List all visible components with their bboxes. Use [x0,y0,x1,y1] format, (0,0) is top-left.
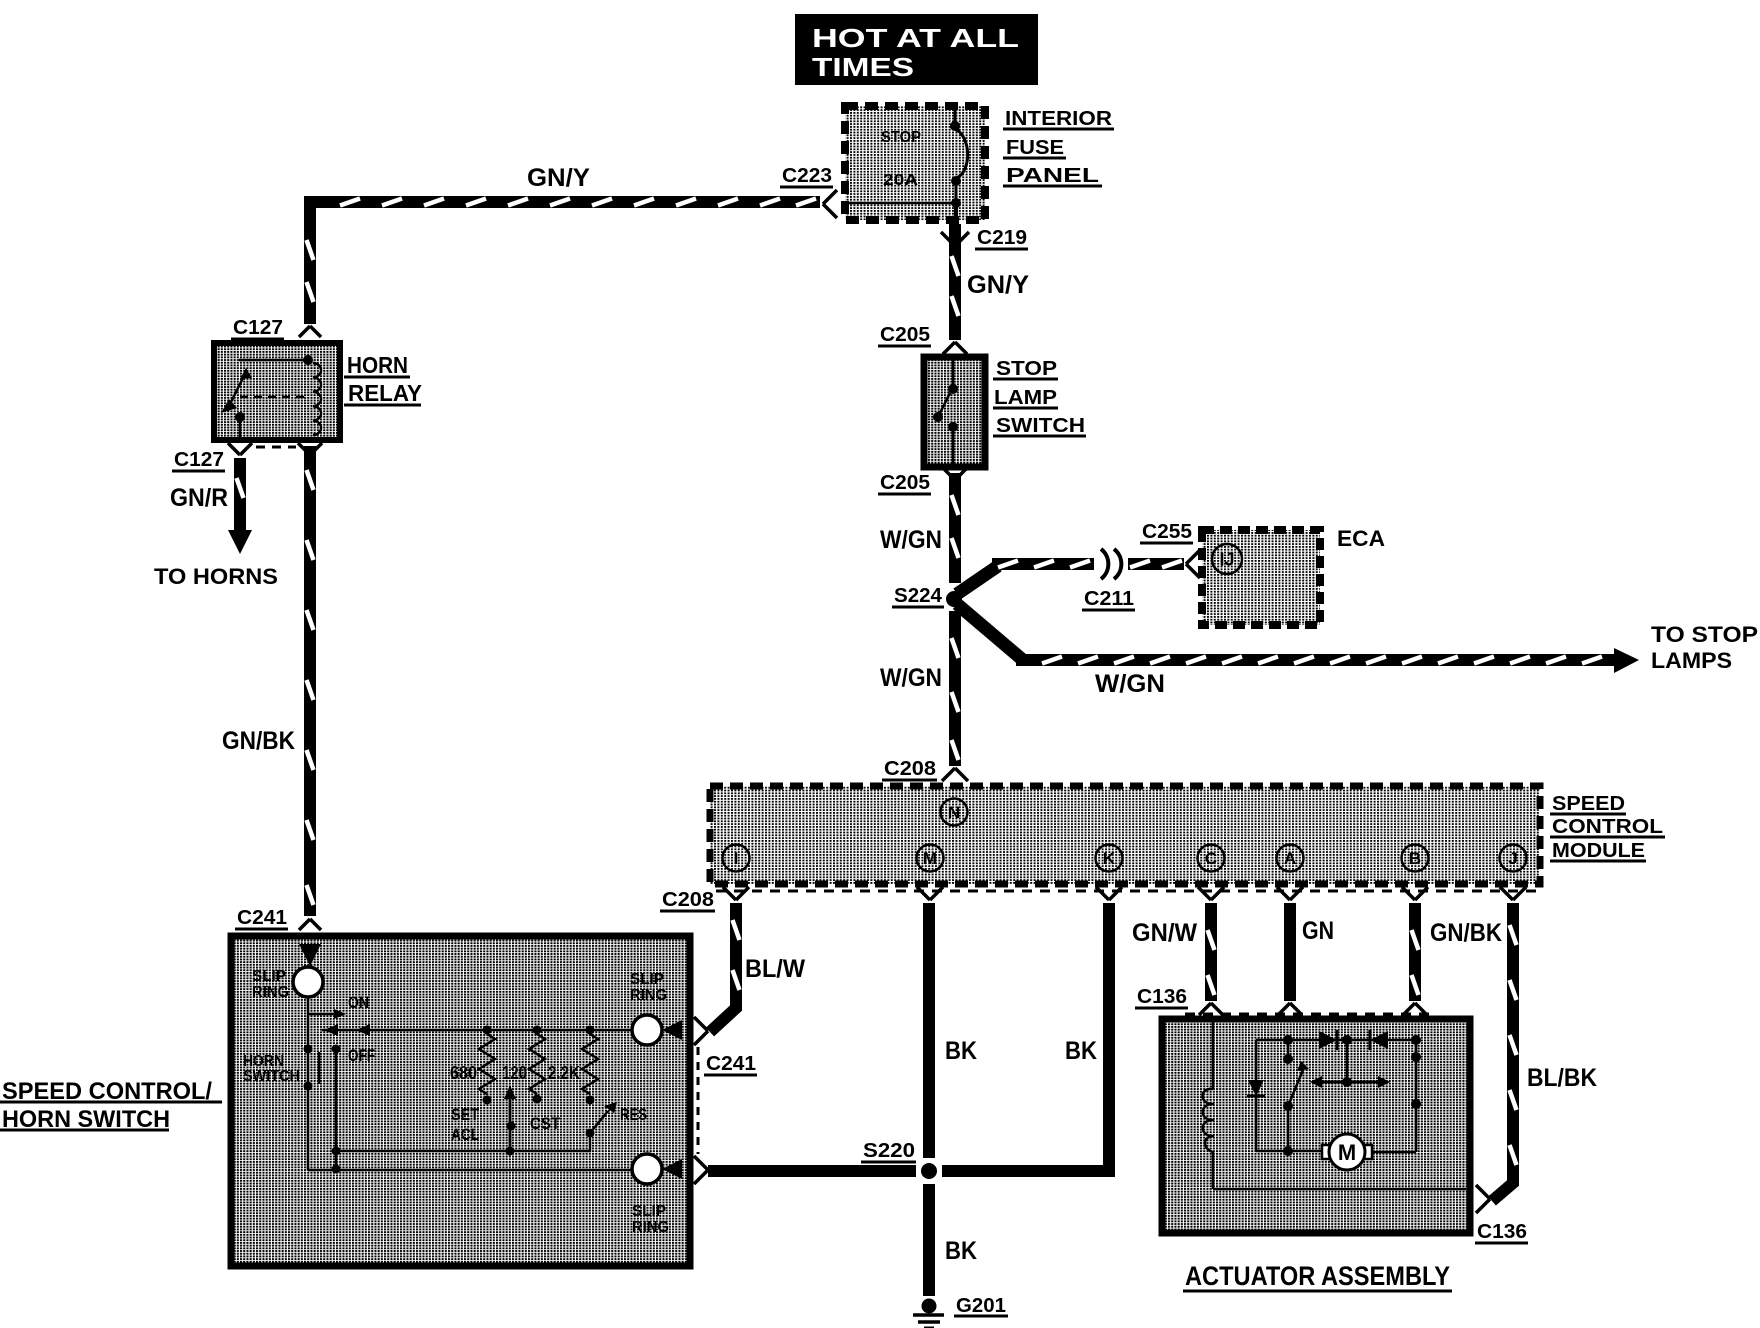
svg-text:GN/Y: GN/Y [527,164,590,192]
svg-text:LAMPS: LAMPS [1651,648,1732,673]
actuator top rail with two diodes [1256,1030,1416,1088]
svg-text:C136: C136 [1137,986,1187,1008]
module pin I [723,845,750,872]
svg-text:SWITCH: SWITCH [243,1068,300,1085]
label ACTUATOR ASSEMBLY [1183,1261,1452,1291]
connector C136 (top) + mating dashed line [1135,986,1430,1015]
wire GN/W (pin C to C136) [1208,903,1215,1001]
svg-text:RING: RING [632,1219,669,1236]
wire BK (pin K to S220) [942,903,1109,1171]
svg-text:J: J [1508,849,1517,868]
svg-text:PANEL: PANEL [1006,165,1099,187]
ECA box [1202,530,1320,625]
connector C219 [941,227,1028,249]
actuator left switch [1283,1040,1309,1156]
label CST [530,1114,561,1133]
entry arrow into slip ring [299,944,321,966]
svg-text:B: B [1409,849,1421,868]
svg-text:BL/W: BL/W [745,955,805,983]
module pin K [1096,845,1123,872]
fuse STOP 20A inside fuse panel [849,107,968,219]
svg-text:S224: S224 [894,585,943,607]
svg-text:GN/BK: GN/BK [1430,919,1502,947]
actuator motor M [1256,1134,1416,1170]
speed control / horn switch box [231,936,690,1266]
wire W/GN (C205 to S224 to C208) [952,473,959,766]
wire W/GN branch to ECA (C211) [957,561,1184,595]
label W/GN (below S224) [880,664,942,692]
svg-text:C205: C205 [880,472,930,494]
connector C223 [780,165,837,218]
resistor 680 [450,1034,495,1105]
slip ring (bottom right) [632,1154,682,1236]
svg-text:C241: C241 [237,907,287,929]
resistor 2.2K [548,1034,598,1105]
module pin M [917,845,944,872]
svg-text:W/GN: W/GN [880,664,942,692]
svg-text:S220: S220 [863,1140,915,1162]
label C208 (left of pin I) [660,889,715,911]
label GN/Y (top wire) [527,164,590,192]
svg-text:C241: C241 [706,1053,756,1075]
svg-text:BK: BK [1065,1037,1097,1065]
module pin B [1402,845,1429,872]
svg-text:RELAY: RELAY [348,380,422,406]
connector C241 (top) [235,907,321,930]
svg-text:OFF: OFF [348,1046,375,1065]
svg-text:SWITCH: SWITCH [996,415,1085,437]
label ON with arrow [308,993,369,1019]
horn relay box [214,343,340,440]
connector C255 [1140,521,1200,578]
module pin N [941,799,968,826]
connector C241 (right, to horn switch) [694,1017,757,1184]
wire GN/BK (pin B to C136) [1412,903,1419,1001]
label BK (left) [945,1037,977,1065]
svg-text:C211: C211 [1084,588,1134,610]
label C208 (above module) [882,758,968,781]
slip ring (top left) [252,967,323,1001]
label OFF + off line [332,1045,376,1174]
svg-text:HOT AT ALL: HOT AT ALL [812,23,1019,53]
connector C205 (top) [878,324,967,354]
svg-text:680: 680 [450,1063,477,1083]
label BK (right) [1065,1037,1097,1065]
label SPEED CONTROL MODULE [1550,793,1665,862]
label INTERIOR FUSE PANEL [1003,108,1114,187]
module lower mating dashed line + forks [716,887,1537,900]
svg-text:C255: C255 [1142,521,1192,543]
svg-text:ACL: ACL [451,1125,479,1144]
svg-text:C: C [1205,849,1217,868]
label W/GN (above S224) [880,526,942,554]
svg-text:BK: BK [945,1237,977,1265]
svg-text:CONTROL: CONTROL [1552,816,1663,838]
resistor 120 [502,1034,545,1104]
label GN [1302,917,1334,945]
interior fuse panel box [845,106,985,220]
svg-text:RING: RING [630,987,667,1004]
svg-text:TO HORNS: TO HORNS [154,564,278,589]
svg-text:G201: G201 [956,1295,1006,1317]
svg-text:MODULE: MODULE [1552,840,1645,862]
svg-text:SLIP: SLIP [632,1203,666,1220]
horn switch vertical line [304,997,320,1170]
svg-text:C205: C205 [880,324,930,346]
ground G201 [913,1295,1008,1328]
svg-text:ECA: ECA [1337,526,1385,551]
svg-text:C127: C127 [233,317,283,339]
connector C136 (bottom right) [1475,1185,1528,1243]
svg-text:BL/BK: BL/BK [1527,1064,1597,1092]
connector C127 (bottom) + mating dash [172,443,322,471]
svg-text:SLIP: SLIP [252,968,286,985]
svg-text:ACTUATOR ASSEMBLY: ACTUATOR ASSEMBLY [1185,1261,1450,1291]
svg-text:SET: SET [451,1105,480,1124]
actuator solenoid coil [1203,1022,1466,1189]
svg-text:2.2K: 2.2K [548,1063,580,1083]
svg-text:M: M [1338,1140,1356,1165]
svg-text:RING: RING [252,984,289,1001]
label BK (bottom) [945,1237,977,1265]
svg-text:W/GN: W/GN [880,526,942,554]
svg-text:W/GN: W/GN [1095,670,1165,698]
svg-text:I: I [734,849,739,868]
module pin C [1198,845,1225,872]
label STOP LAMP SWITCH [993,358,1086,437]
label GN/Y (vertical) [967,271,1029,299]
wire GN/R to horns (arrow) [228,458,252,554]
svg-text:GN/Y: GN/Y [967,271,1029,299]
svg-text:20A: 20A [883,172,919,189]
splice S220 [861,1140,937,1179]
label ECA [1337,526,1385,551]
wire BL/W (pin I to C241) [710,903,740,1032]
svg-text:C208: C208 [662,889,714,911]
svg-text:120: 120 [502,1063,527,1083]
label GN/W [1132,919,1197,947]
label HORN SWITCH [243,1053,300,1085]
RES arrow [586,1102,648,1138]
svg-text:C219: C219 [977,227,1027,249]
actuator left branch diode (down) [1247,1040,1265,1151]
svg-text:TO STOP: TO STOP [1651,622,1758,647]
svg-text:GN/BK: GN/BK [222,727,295,755]
actuator assembly box [1162,1019,1470,1233]
stop lamp switch box [924,357,985,467]
svg-text:SLIP: SLIP [630,971,664,988]
label BL/W [745,955,805,983]
svg-text:STOP: STOP [881,129,921,146]
ECA pin IJ [1212,544,1242,574]
label GN/BK (right) [1430,919,1502,947]
svg-text:N: N [948,803,960,822]
label GN/BK [222,727,295,755]
svg-text:BK: BK [945,1037,977,1065]
wire BK (pin M to S220 to G201) [923,903,935,1296]
wire W/GN to stop lamps (with arrow) [957,604,1639,673]
label TO STOP LAMPS [1651,622,1758,673]
wire GN/Y from C223 to C127 (horizontal + left vertical) [304,196,820,324]
svg-text:TIMES: TIMES [812,52,914,82]
svg-text:HORN: HORN [347,352,408,378]
label BL/BK [1527,1064,1597,1092]
wire BL/BK (pin J to actuator C136) [1492,903,1517,1201]
svg-text:K: K [1103,849,1116,868]
svg-text:STOP: STOP [996,358,1057,380]
SET/ACL arrow [451,1085,516,1156]
svg-text:SPEED: SPEED [1552,793,1625,815]
svg-text:A: A [1284,849,1296,868]
module pin A [1277,845,1304,872]
wire GN (pin A to C136) [1284,903,1296,1001]
splice S224 [892,585,962,607]
svg-text:GN/R: GN/R [170,484,228,512]
speed control module box [710,786,1540,884]
internal top rail (to slip ring right) [322,1024,632,1036]
svg-text:RES: RES [620,1105,647,1124]
svg-text:ON: ON [348,993,369,1012]
svg-text:C223: C223 [782,165,832,187]
svg-text:INTERIOR: INTERIOR [1005,108,1113,130]
label W/GN (stop lamps wire) [1095,670,1165,698]
svg-text:CST: CST [530,1114,561,1133]
inline connector C211 [1082,549,1135,610]
svg-text:GN: GN [1302,917,1334,945]
connector C205 (bottom) [878,468,967,494]
bottom bus lines [308,1133,632,1170]
svg-text:C208: C208 [884,758,936,780]
slip ring (top right) [630,971,682,1045]
power source banner: HOT AT ALL TIMES [795,14,1038,85]
connector C127 (top) [231,317,321,339]
wire from horn switch to S220 (S220 horizontal) [708,1165,916,1177]
actuator right branch [1411,1035,1421,1152]
svg-text:LAMP: LAMP [994,387,1057,409]
svg-text:C127: C127 [174,449,224,471]
module pin J [1500,845,1527,872]
wire GN/BK (relay to C241) [307,446,314,916]
label HORN RELAY [344,352,422,406]
label TO HORNS [154,564,278,589]
label SPEED CONTROL / HORN SWITCH [0,1078,222,1133]
svg-text:M: M [923,849,937,868]
svg-text:C136: C136 [1477,1221,1527,1243]
svg-text:FUSE: FUSE [1006,137,1064,159]
label GN/R [170,484,228,512]
svg-text:IJ: IJ [1219,549,1234,569]
svg-text:GN/W: GN/W [1132,919,1197,947]
wire GN/Y (C219 to C205) [952,224,959,340]
